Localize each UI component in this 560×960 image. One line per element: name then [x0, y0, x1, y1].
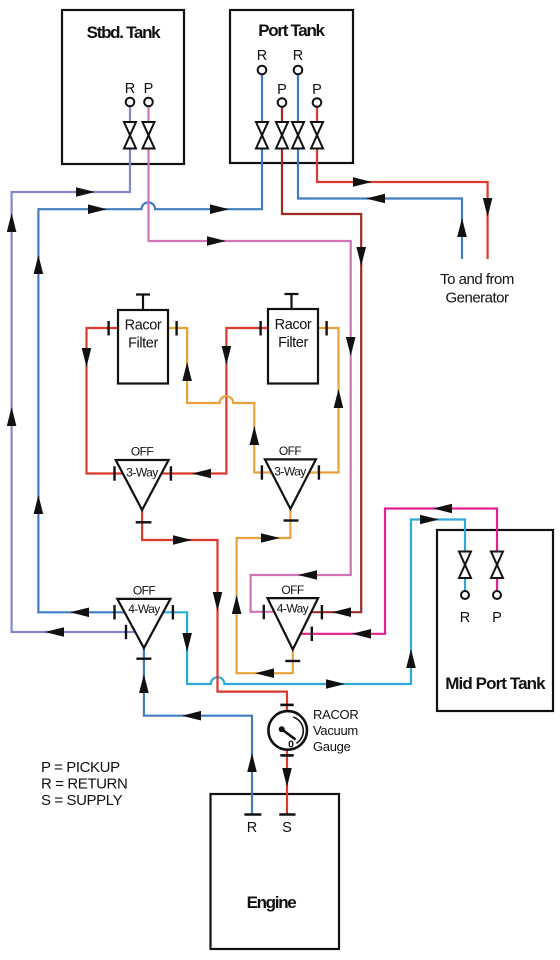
tick 3way2 bottom — [284, 519, 299, 521]
tick 3way1 left — [113, 466, 115, 480]
tick 4way2 lower-right — [311, 627, 313, 641]
Engine box — [211, 794, 340, 949]
wire: engine R return to 4-way1 bottom (blue) — [144, 648, 252, 814]
svg-text:3-Way: 3-Way — [274, 465, 306, 479]
Racor Filter 2 vent T — [285, 294, 299, 309]
tick 4way1 lower-left — [125, 625, 127, 639]
wire: filter2 out to 3-way1 right (red) — [161, 328, 268, 474]
svg-text:Filter: Filter — [128, 336, 158, 352]
wire: Mid Port P pickup (magenta) — [301, 509, 498, 634]
arrow right on cyan y519.5 — [420, 515, 439, 525]
arrow up on blue x38.4 upper — [34, 255, 44, 274]
wire: Port P2 to generator (red) — [317, 107, 488, 259]
gauge hub — [279, 726, 285, 732]
wire: 4-way1 to Mid Port R return (cyan) — [164, 520, 465, 685]
4-way valve 2 — [268, 583, 319, 650]
arrow right on blue y208.5 first — [88, 204, 107, 214]
gauge body — [268, 711, 307, 750]
svg-text:R: R — [460, 610, 470, 626]
svg-text:To and from: To and from — [440, 271, 514, 288]
4-way valve 1 — [117, 583, 170, 648]
arrow up on blue x38.4 lower — [34, 495, 44, 514]
wire: 3-way1 out to gauge and engine S (red supply) — [142, 510, 287, 712]
svg-text:Mid Port Tank: Mid Port Tank — [445, 674, 546, 693]
tick 3way1 right — [170, 466, 172, 480]
tick filter1 right — [175, 321, 177, 336]
arrow left on magenta y633.8 — [352, 629, 371, 639]
arrow up on orange x236.6 — [232, 595, 242, 614]
tick 4way2 left — [263, 605, 265, 619]
svg-text:OFF: OFF — [279, 444, 302, 458]
tick 3way1 bottom — [136, 521, 152, 523]
svg-text:Filter: Filter — [278, 335, 308, 351]
svg-text:R: R — [257, 48, 267, 64]
svg-text:R: R — [247, 820, 257, 836]
port circle Stbd R — [126, 98, 135, 107]
svg-text:Racor: Racor — [125, 318, 162, 334]
tick gauge bottom — [280, 754, 293, 757]
label RACOR Vacuum Gauge — [313, 707, 358, 754]
svg-text:P: P — [312, 82, 322, 98]
arrow up on cyan x411 — [406, 649, 416, 668]
wire: gauge to engine S (red supply) — [286, 748, 288, 814]
arrow up on purple x11.6 upper — [7, 213, 17, 232]
port circle Port R1 — [258, 66, 267, 75]
arrow up on blue engine x143.9 — [139, 674, 149, 693]
arrow down on red x226.4 — [222, 346, 232, 365]
arrow right on pink y241 — [207, 236, 226, 246]
tick 4way1 bottom — [136, 658, 151, 660]
port circle Mid Port P — [493, 591, 501, 599]
tick filter1 left — [107, 321, 109, 336]
svg-text:Stbd. Tank: Stbd. Tank — [87, 23, 161, 42]
svg-text:Racor: Racor — [275, 317, 312, 333]
valve Mid Port P — [491, 552, 503, 579]
port circle Port R2 — [294, 66, 303, 75]
arrow up on orange x254.3 — [250, 426, 260, 445]
wire: 4-way2 out to 3-way2 bottom (orange) — [237, 509, 293, 673]
arrow down on red x487.6 — [483, 198, 493, 217]
svg-text:P: P — [492, 610, 502, 626]
wire: Mid Port R circle stub (cyan) — [464, 578, 466, 591]
arrow down on red x217.5 — [213, 592, 223, 611]
svg-text:0: 0 — [288, 739, 294, 751]
Racor Filter 1 vent T — [136, 295, 150, 311]
arrow up on orange x187.1 — [182, 362, 192, 381]
arrow right on red y540 — [173, 535, 192, 545]
arrow left on magenta y508.5 — [433, 504, 452, 514]
valve Port R1 — [256, 122, 268, 149]
svg-text:S = SUPPLY: S = SUPPLY — [41, 792, 123, 809]
svg-text:S: S — [282, 820, 292, 836]
svg-text:Port Tank: Port Tank — [258, 21, 325, 40]
tick engine S — [279, 813, 295, 816]
tick 4way2 upper-right — [321, 605, 323, 619]
arrow down on cyan x187.1 — [182, 633, 192, 652]
valve Port P2 — [311, 122, 323, 149]
svg-text:P: P — [144, 81, 154, 97]
arrow down on pink x350.7 — [346, 337, 356, 356]
wire: Stbd P pickup (pink) — [149, 106, 351, 612]
svg-text:P = PICKUP: P = PICKUP — [41, 759, 120, 776]
Port Tank box — [230, 10, 353, 163]
Racor Filter 1 box — [118, 310, 168, 384]
svg-text:Generator: Generator — [445, 290, 509, 307]
arrow up on blue gen x462 — [457, 218, 467, 237]
tick 3way2 right — [318, 465, 320, 479]
arrow left on purple y632 — [45, 627, 64, 637]
svg-text:OFF: OFF — [281, 583, 304, 597]
svg-text:P: P — [277, 82, 287, 98]
arrow left on pink y575 — [298, 570, 317, 580]
legend — [41, 759, 127, 809]
Racor Filter 2 box — [268, 309, 318, 384]
arrow left on blue y611.4 — [70, 608, 89, 618]
arrow down on red x287 — [282, 768, 292, 787]
wire: Stbd R return (purple) — [12, 106, 136, 632]
wire: Port R1 return (blue) — [38, 74, 262, 612]
tick 4way2 bottom — [285, 660, 300, 662]
svg-text:R = RETURN: R = RETURN — [41, 776, 127, 793]
arrow right on purple y192 — [76, 187, 95, 197]
wire: 3-way2 right to filter2 right (orange) — [309, 328, 338, 473]
valve Stbd P — [143, 122, 155, 149]
arrow left on orange y674 — [255, 668, 274, 678]
tick 3way2 left — [261, 465, 263, 479]
tick 4way1 right — [172, 605, 174, 619]
arrow down on red x86.5 — [82, 348, 92, 367]
svg-text:R: R — [125, 81, 135, 97]
port circle Mid Port R — [461, 591, 469, 599]
arrow left on blue gen y198.5 — [366, 194, 385, 204]
valve Stbd R — [124, 122, 136, 149]
arrow up on orange x338.5 — [334, 389, 344, 408]
label To and from Generator — [440, 271, 514, 307]
svg-text:4-Way: 4-Way — [128, 602, 160, 616]
arrow right on cyan y684 — [326, 679, 345, 689]
svg-text:OFF: OFF — [131, 445, 154, 459]
arrow right on red y182 — [353, 177, 372, 187]
Stbd Tank box — [62, 10, 184, 164]
svg-text:4-Way: 4-Way — [277, 601, 309, 615]
svg-text:Vacuum: Vacuum — [313, 723, 358, 738]
arrow up on purple x11.6 lower — [7, 407, 17, 426]
wire: filter1 out to 3-way1 left (red) — [87, 328, 123, 474]
port circle Stbd P — [144, 98, 153, 107]
tick engine R — [244, 813, 261, 816]
tick filter2 left — [259, 321, 261, 336]
Mid Port Tank box — [437, 530, 553, 711]
wire: 3-way2 left to filter1 right (orange) — [168, 328, 272, 473]
3-way valve 1 — [116, 445, 169, 511]
port circle Port P2 — [313, 98, 322, 107]
tick gauge top — [280, 704, 293, 707]
valve Port P1 — [276, 122, 288, 149]
arrow right on blue y208.5 second — [210, 204, 229, 214]
tick filter2 right — [325, 321, 327, 336]
svg-text:Gauge: Gauge — [313, 739, 351, 754]
svg-text:OFF: OFF — [133, 583, 156, 597]
3-way valve 2 — [265, 444, 316, 509]
gauge scale arc — [293, 717, 303, 743]
wire: Port P1 pickup (dark red) — [282, 107, 361, 612]
wire: generator return to Port R2 (blue) — [298, 74, 462, 259]
tick 4way1 upper-left — [113, 605, 115, 619]
port circle Port P1 — [278, 98, 287, 107]
svg-text:Engine: Engine — [247, 893, 297, 912]
svg-text:3-Way: 3-Way — [126, 466, 158, 480]
arrow right on orange y538 — [261, 533, 280, 543]
arrow up on blue engine x252 — [247, 753, 257, 772]
arrow left on red y472.6 — [192, 469, 211, 479]
svg-text:R: R — [293, 48, 303, 64]
valve Mid Port R — [459, 552, 471, 579]
svg-text:RACOR: RACOR — [313, 707, 358, 722]
gauge needle — [282, 729, 296, 739]
arrow down on dark red x361.2 — [356, 247, 366, 266]
arrow left on dark red y611.3 — [332, 607, 351, 617]
valve Port R2 — [292, 122, 304, 149]
arrow left on blue engine y715.7 — [182, 711, 201, 721]
